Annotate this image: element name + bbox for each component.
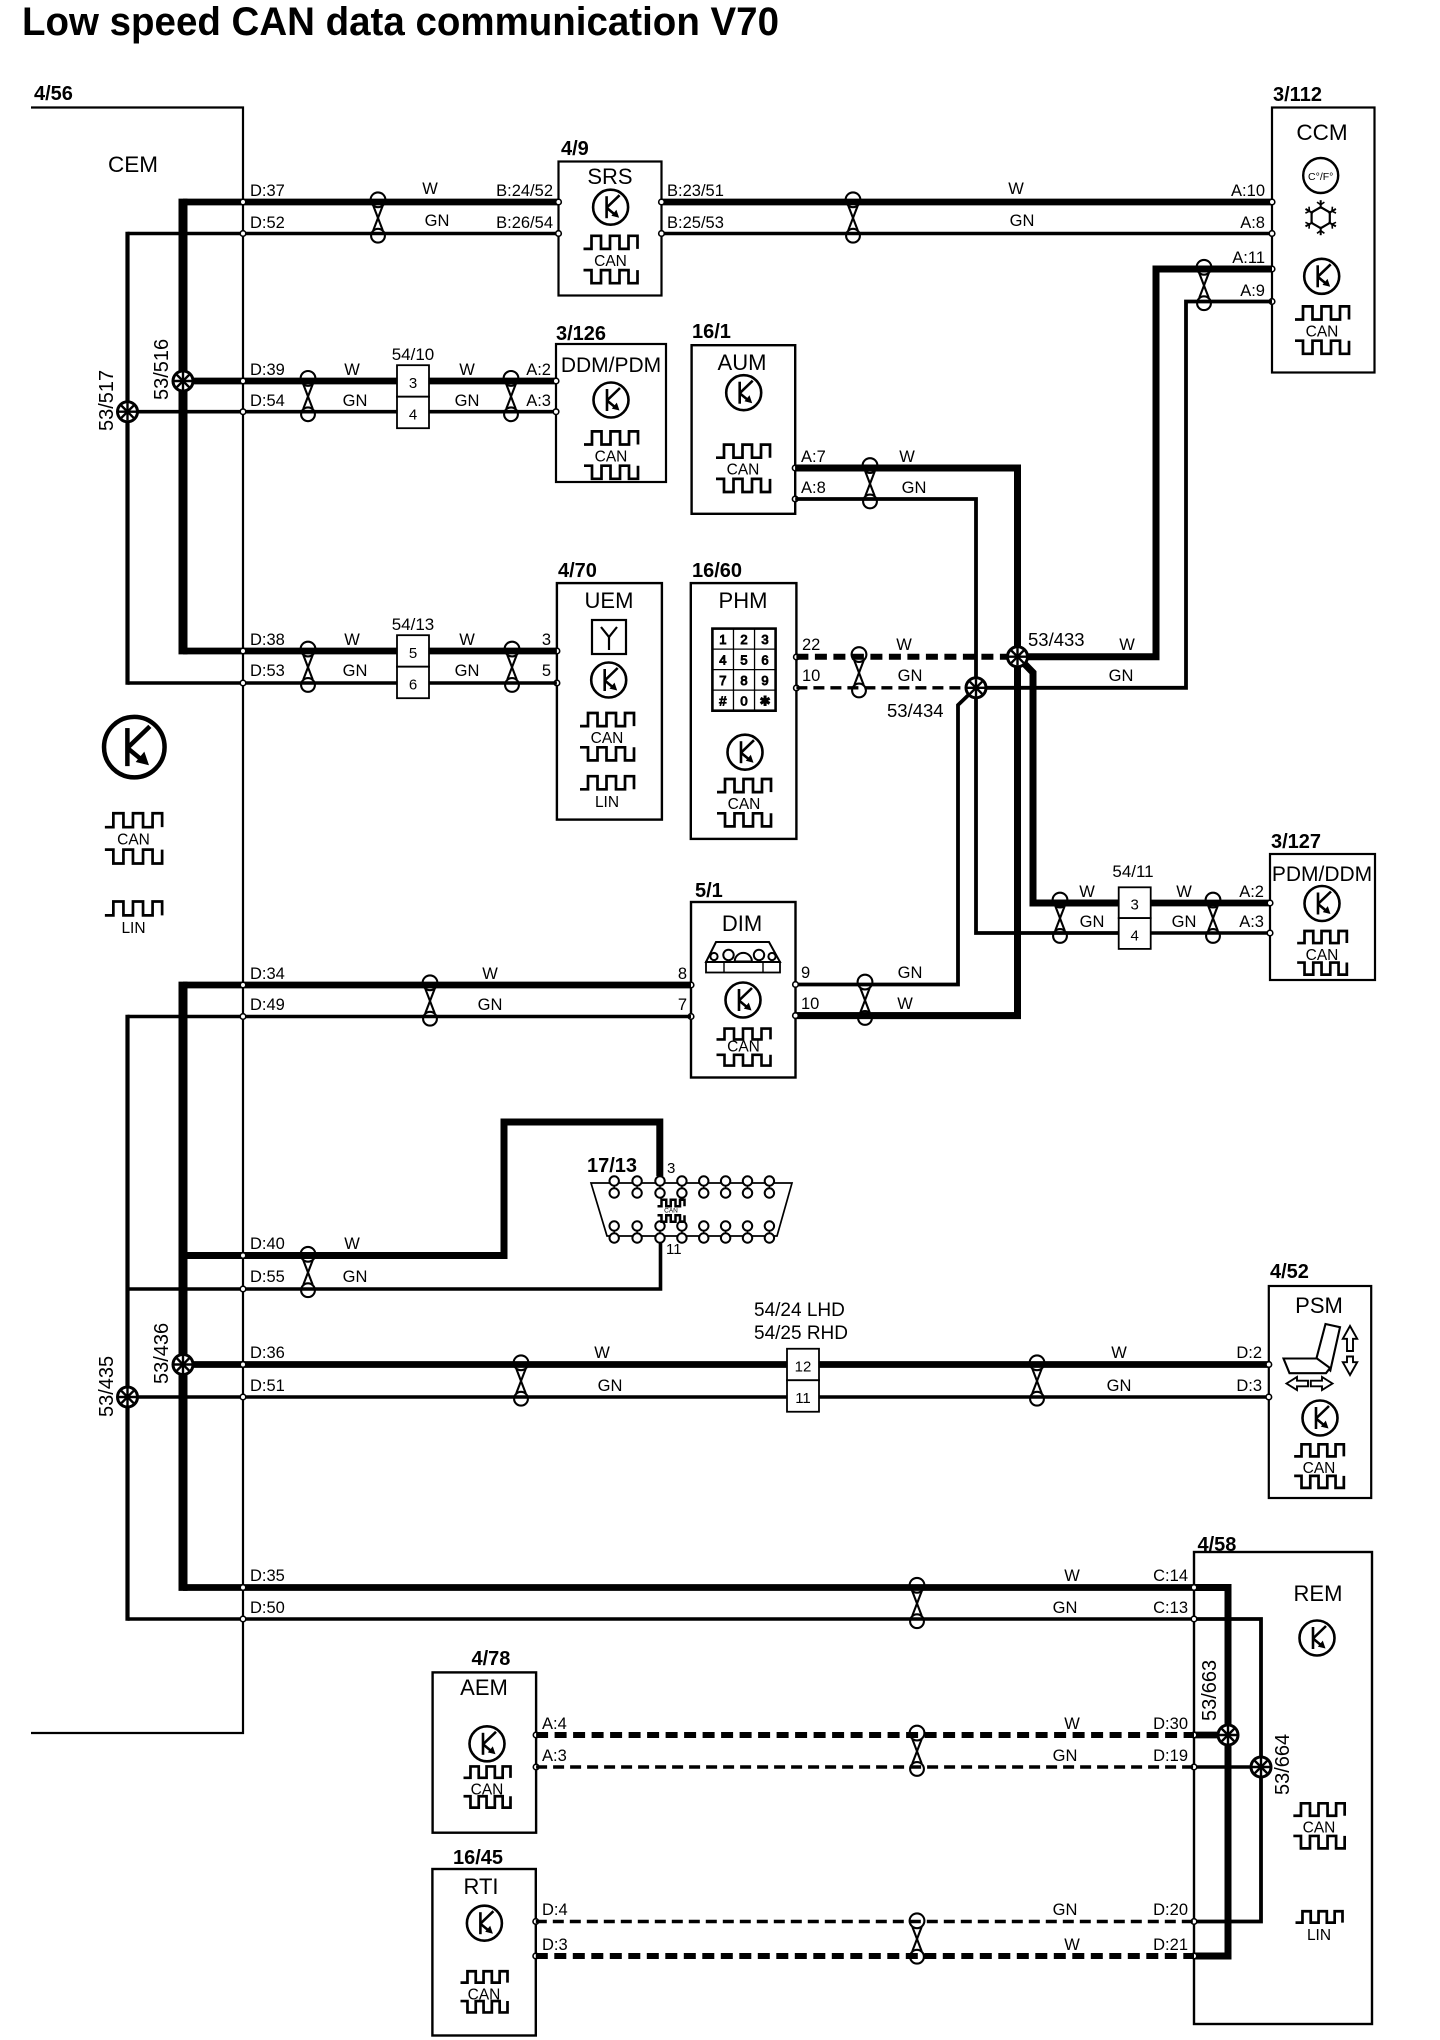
pin CCM A:9 <box>1269 299 1275 305</box>
svg-text:W: W <box>422 180 438 198</box>
svg-text:D:20: D:20 <box>1153 1901 1188 1919</box>
svg-text:LIN: LIN <box>121 920 145 937</box>
svg-text:4: 4 <box>409 407 417 424</box>
wire W CEM D:37 to SRS B:24/52 <box>183 199 558 206</box>
pin CEM D:52 <box>240 231 246 237</box>
twisted pair <box>863 458 878 508</box>
pin REM D:21 <box>1191 1953 1197 1959</box>
svg-text:GN: GN <box>898 667 923 685</box>
svg-text:GN: GN <box>343 662 368 680</box>
wire GN bus CEM lower (D:49-D:50) <box>125 1015 129 1621</box>
svg-text:A:10: A:10 <box>1231 182 1265 200</box>
svg-text:LIN: LIN <box>595 794 619 811</box>
wire GN splice 53/434 to CCM A:9 <box>976 302 1272 688</box>
twisted pair <box>858 975 873 1025</box>
pin CEM D:50 <box>240 1616 246 1622</box>
splice 53/663 <box>1218 1725 1238 1745</box>
svg-text:PDM/DDM: PDM/DDM <box>1272 863 1372 886</box>
module PDM/DDM 3/127 <box>1267 831 1375 980</box>
svg-text:D:51: D:51 <box>250 1377 285 1395</box>
svg-text:6: 6 <box>409 677 417 694</box>
pin CEM D:38 <box>240 648 246 654</box>
svg-text:GN: GN <box>1010 212 1035 230</box>
wire W bus CEM lower (D:34-D:35) <box>179 982 188 1591</box>
svg-text:A:3: A:3 <box>542 1747 567 1765</box>
svg-text:GN: GN <box>455 392 480 410</box>
K-line symbol PHM <box>728 735 763 770</box>
svg-text:GN: GN <box>455 662 480 680</box>
pin CEM D:54 <box>240 409 246 415</box>
svg-text:W: W <box>344 1235 360 1253</box>
module REM 4/58 <box>1194 1534 1372 2024</box>
svg-text:D:37: D:37 <box>250 182 285 200</box>
twisted pair <box>504 371 519 421</box>
svg-text:22: 22 <box>802 636 820 654</box>
splice 53/436 <box>173 1355 193 1375</box>
svg-text:8: 8 <box>740 673 747 688</box>
svg-text:6: 6 <box>761 652 768 667</box>
svg-text:A:2: A:2 <box>1239 883 1264 901</box>
wire W CEM D:39 to DDM/PDM A:2 <box>183 378 556 385</box>
svg-text:11: 11 <box>795 1390 811 1407</box>
pin CEM D:34 <box>240 982 246 988</box>
module SRS 4/9 <box>556 138 665 296</box>
pin CEM D:39 <box>240 378 246 384</box>
twisted pair <box>910 1913 925 1963</box>
svg-text:8: 8 <box>678 965 687 983</box>
splice 53/516 <box>173 371 193 391</box>
svg-text:CAN: CAN <box>1303 1820 1336 1837</box>
pin REM D:30 <box>1191 1732 1197 1738</box>
pin DIM 8 <box>688 982 694 988</box>
svg-text:7: 7 <box>678 996 687 1014</box>
svg-text:CAN: CAN <box>1306 324 1339 341</box>
svg-text:D:38: D:38 <box>250 631 285 649</box>
svg-text:D:54: D:54 <box>250 392 285 410</box>
wire W 54/11 pin3 to PDM/DDM A:2 <box>1151 900 1270 907</box>
wire GN to 54/11 pin4 to PDM/DDM A:3 <box>1151 931 1270 935</box>
svg-text:AUM: AUM <box>718 350 767 375</box>
svg-text:D:19: D:19 <box>1153 1747 1188 1765</box>
svg-text:A:3: A:3 <box>526 392 551 410</box>
twisted pair <box>1030 1355 1045 1405</box>
wire GN dashed RTI D:4 to REM D:20 <box>536 1920 1194 1923</box>
svg-text:D:3: D:3 <box>1236 1377 1262 1395</box>
wire GN CEM D:53 to UEM 5 <box>128 681 557 685</box>
module CEM 4/56 <box>31 83 243 1733</box>
pin DIM 10 <box>793 1013 799 1019</box>
svg-text:16/1: 16/1 <box>692 321 731 343</box>
wire W CEM D:35 to REM C:14 <box>183 1584 1194 1591</box>
pin CEM D:36 <box>240 1362 246 1368</box>
svg-text:REM: REM <box>1294 1581 1343 1606</box>
LIN symbol UEM <box>580 776 634 811</box>
pin REM C:13 <box>1191 1616 1197 1622</box>
CAN symbol DIM <box>717 1029 771 1066</box>
CAN symbol PHM <box>717 779 771 826</box>
svg-text:W: W <box>1064 1936 1080 1954</box>
svg-text:W: W <box>344 631 360 649</box>
svg-text:53/434: 53/434 <box>887 700 944 721</box>
svg-text:CEM: CEM <box>108 152 158 177</box>
module AEM 4/78 <box>433 1648 539 1833</box>
svg-text:CAN: CAN <box>728 796 761 813</box>
wire W CEM D:40 to connector 17/13 pin 3 <box>183 1122 660 1256</box>
svg-text:10: 10 <box>801 995 819 1013</box>
K-line symbol DIM <box>726 983 761 1018</box>
wire GN CEM D:50 to REM C:13 <box>128 1617 1195 1621</box>
svg-text:RTI: RTI <box>463 1874 498 1899</box>
svg-text:11: 11 <box>666 1241 682 1258</box>
svg-text:AEM: AEM <box>460 1675 508 1700</box>
svg-text:W: W <box>344 361 360 379</box>
svg-text:3: 3 <box>761 632 768 647</box>
svg-text:A:4: A:4 <box>542 1715 567 1733</box>
svg-text:4/56: 4/56 <box>34 83 73 105</box>
K-line symbol CCM <box>1304 259 1339 294</box>
CAN symbol PSM <box>1294 1444 1344 1488</box>
twisted pair <box>301 1247 316 1297</box>
twisted pair <box>514 1355 529 1405</box>
svg-text:D:21: D:21 <box>1153 1936 1188 1954</box>
twisted pair <box>1053 893 1068 943</box>
svg-text:B:24/52: B:24/52 <box>496 182 553 200</box>
pin DIM 9 <box>793 982 799 988</box>
svg-text:53/517: 53/517 <box>96 370 118 431</box>
twisted pair <box>371 192 386 242</box>
antenna icon <box>592 620 626 654</box>
svg-text:A:8: A:8 <box>801 479 826 497</box>
svg-text:A:9: A:9 <box>1240 282 1265 300</box>
twisted pair <box>846 192 861 242</box>
svg-text:D:53: D:53 <box>250 662 285 680</box>
svg-text:D:36: D:36 <box>250 1344 285 1362</box>
svg-text:9: 9 <box>761 673 768 688</box>
svg-text:GN: GN <box>898 964 923 982</box>
svg-text:W: W <box>899 448 915 466</box>
svg-text:5/1: 5/1 <box>695 880 723 902</box>
svg-text:GN: GN <box>1172 913 1197 931</box>
svg-text:✱: ✱ <box>760 693 771 708</box>
snowflake AC icon <box>1305 200 1336 235</box>
svg-text:UEM: UEM <box>585 588 634 613</box>
svg-text:CAN: CAN <box>595 449 628 466</box>
wire W dashed AEM A:4 to REM D:30 <box>536 1732 1194 1738</box>
splice 53/517 <box>118 402 138 422</box>
wire GN bus CEM upper (D:52-D:53) <box>125 232 129 685</box>
module CCM 3/112 <box>1272 84 1375 373</box>
svg-text:53/663: 53/663 <box>1199 1660 1221 1721</box>
connector 54/24 LHD / 54/25 RHD <box>754 1300 848 1412</box>
svg-text:16/60: 16/60 <box>692 560 742 582</box>
svg-text:GN: GN <box>478 996 503 1014</box>
svg-text:D:34: D:34 <box>250 965 285 983</box>
svg-text:53/436: 53/436 <box>151 1323 173 1384</box>
svg-text:2: 2 <box>740 632 747 647</box>
svg-text:7: 7 <box>719 673 726 688</box>
wire GN AUM A:8 down to splice 53/434 <box>795 499 1118 933</box>
svg-text:A:3: A:3 <box>1239 913 1264 931</box>
connector 54/13 <box>392 615 435 698</box>
wire W bus CEM upper (D:37-D:38) <box>179 199 188 655</box>
K-line symbol UEM <box>591 663 626 698</box>
module DIM 5/1 <box>691 880 796 1078</box>
wire GN CEM D:55 to connector 17/13 pin 11 <box>128 1242 661 1289</box>
wire GN dashed PHM 10 to splice 53/434 <box>796 686 976 689</box>
svg-text:W: W <box>1079 883 1095 901</box>
svg-text:GN: GN <box>343 1268 368 1286</box>
wire GN CEM D:52 to SRS B:26/54 <box>128 232 559 236</box>
svg-text:CAN: CAN <box>591 730 624 747</box>
svg-text:3: 3 <box>1131 897 1139 914</box>
wire W dashed PHM 22 to splice 53/433 <box>796 654 1017 660</box>
svg-text:CAN: CAN <box>594 253 627 270</box>
svg-text:W: W <box>594 1344 610 1362</box>
svg-text:4/70: 4/70 <box>558 560 597 582</box>
wire W REM D:30 to splice 53/663 <box>1194 1732 1228 1739</box>
LIN symbol CEM <box>105 901 162 936</box>
svg-text:B:25/53: B:25/53 <box>667 214 724 232</box>
module PHM 16/60 <box>691 560 797 839</box>
power seat icon <box>1284 1324 1358 1390</box>
CAN symbol CEM <box>105 813 162 863</box>
svg-text:D:52: D:52 <box>250 214 285 232</box>
pin CEM D:51 <box>240 1394 246 1400</box>
svg-text:CAN: CAN <box>727 1039 760 1056</box>
wire GN CEM D:54 to DDM/PDM A:3 <box>128 410 557 414</box>
wire GN SRS B:25/53 to CCM A:8 <box>662 232 1272 236</box>
connector 54/11 <box>1112 862 1153 949</box>
svg-text:D:55: D:55 <box>250 1268 285 1286</box>
twisted pair <box>505 642 520 692</box>
svg-text:4/78: 4/78 <box>472 1648 511 1670</box>
svg-text:W: W <box>482 965 498 983</box>
svg-text:CAN: CAN <box>727 462 760 479</box>
wire GN splice 53/434 jog to DIM 9 <box>796 688 977 985</box>
svg-text:4/52: 4/52 <box>1270 1261 1309 1283</box>
svg-text:D:50: D:50 <box>250 1599 285 1617</box>
svg-text:W: W <box>1119 636 1135 654</box>
svg-text:9: 9 <box>801 964 810 982</box>
svg-text:GN: GN <box>1109 667 1134 685</box>
instrument cluster icon <box>706 942 780 973</box>
pin UEM 5 <box>554 680 560 686</box>
wire W REM C:14 internal to D:21 <box>1194 1588 1228 1957</box>
svg-text:1: 1 <box>719 632 726 647</box>
svg-text:D:3: D:3 <box>542 1936 568 1954</box>
svg-text:A:7: A:7 <box>801 448 826 466</box>
wire GN REM C:13 internal to D:20 <box>1194 1619 1261 1922</box>
svg-text:54/10: 54/10 <box>392 345 435 364</box>
wire W dashed RTI D:3 to REM D:21 <box>536 1953 1194 1959</box>
wire W CEM D:36 to PSM D:2 <box>183 1361 1269 1368</box>
wire W splice 53/433 jog to 54/11 pin 3 <box>1018 657 1119 903</box>
svg-text:3: 3 <box>409 375 417 392</box>
wire W CEM D:38 to UEM 3 <box>183 648 557 655</box>
pin CEM D:49 <box>240 1014 246 1020</box>
svg-text:W: W <box>459 631 475 649</box>
svg-text:W: W <box>1176 883 1192 901</box>
splice 53/433 <box>1008 647 1028 667</box>
svg-text:4/9: 4/9 <box>561 138 589 160</box>
svg-text:54/24 LHD: 54/24 LHD <box>754 1300 845 1321</box>
connector 54/10 <box>392 345 435 428</box>
svg-text:5: 5 <box>409 645 417 662</box>
pin CCM A:11 <box>1269 266 1275 272</box>
svg-text:W: W <box>896 636 912 654</box>
svg-text:3: 3 <box>542 631 551 649</box>
wire GN dashed AEM A:3 to REM D:19 <box>536 1765 1194 1768</box>
wire GN REM D:19 to splice 53/664 <box>1194 1765 1261 1769</box>
svg-text:A:8: A:8 <box>1240 214 1265 232</box>
svg-text:5: 5 <box>740 652 747 667</box>
pin CEM D:55 <box>240 1286 246 1292</box>
svg-text:C:14: C:14 <box>1153 1567 1188 1585</box>
svg-text:D:30: D:30 <box>1153 1715 1188 1733</box>
module AUM 16/1 <box>692 321 798 514</box>
svg-text:D:2: D:2 <box>1236 1344 1262 1362</box>
svg-text:GN: GN <box>343 392 368 410</box>
K-line symbol PSM <box>1303 1401 1338 1436</box>
CAN symbol UEM <box>580 713 634 760</box>
svg-text:GN: GN <box>1053 1901 1078 1919</box>
pin CCM A:10 <box>1269 199 1275 205</box>
twisted pair <box>423 975 438 1025</box>
splice 53/435 <box>118 1387 138 1407</box>
wire GN CEM D:51 to PSM D:3 <box>128 1395 1269 1399</box>
svg-text:CAN: CAN <box>664 1208 678 1215</box>
svg-text:A:11: A:11 <box>1232 249 1265 267</box>
svg-text:SRS: SRS <box>587 164 632 189</box>
keypad icon <box>712 629 775 711</box>
svg-text:W: W <box>1008 180 1024 198</box>
svg-text:0: 0 <box>740 693 747 708</box>
wire W AUM A:7 down to splice 53/433 and DIM 10 <box>795 468 1017 1016</box>
pin UEM 3 <box>554 648 560 654</box>
svg-text:54/25 RHD: 54/25 RHD <box>754 1323 848 1344</box>
pin CEM D:35 <box>240 1585 246 1591</box>
svg-text:3: 3 <box>667 1160 675 1177</box>
twisted pair <box>910 1726 925 1776</box>
module RTI 16/45 <box>432 1847 538 2036</box>
module UEM 4/70 <box>557 560 662 820</box>
svg-text:DIM: DIM <box>722 911 762 936</box>
CAN symbol 17/13 <box>658 1200 685 1222</box>
svg-text:C°/F°: C°/F° <box>1308 171 1333 183</box>
pin REM D:20 <box>1191 1919 1197 1925</box>
pin PHM 10 <box>794 685 800 691</box>
wire W SRS B:23/51 to CCM A:10 <box>662 199 1272 206</box>
svg-text:#: # <box>719 693 727 708</box>
module PSM 4/52 <box>1266 1261 1371 1498</box>
svg-text:D:49: D:49 <box>250 996 285 1014</box>
svg-text:12: 12 <box>795 1359 812 1376</box>
svg-text:53/435: 53/435 <box>96 1356 118 1417</box>
svg-text:16/45: 16/45 <box>453 1847 503 1869</box>
wire W splice 53/433 to CCM A:11 <box>1018 269 1273 657</box>
wire W CEM D:34 to DIM 8 <box>183 982 691 989</box>
svg-text:DDM/PDM: DDM/PDM <box>561 354 661 377</box>
svg-text:3/127: 3/127 <box>1271 831 1321 853</box>
svg-text:3/112: 3/112 <box>1273 84 1322 106</box>
pin CEM D:37 <box>240 199 246 205</box>
svg-text:D:39: D:39 <box>250 361 285 379</box>
twisted pair <box>301 371 316 421</box>
twisted pair <box>852 647 867 697</box>
svg-text:3/126: 3/126 <box>556 323 606 345</box>
svg-text:CAN: CAN <box>117 831 150 848</box>
twisted pair <box>1206 893 1221 943</box>
svg-text:54/11: 54/11 <box>1112 862 1153 881</box>
svg-text:10: 10 <box>802 667 820 685</box>
K-line symbol CEM <box>104 717 165 778</box>
svg-text:GN: GN <box>425 212 450 230</box>
svg-text:A:2: A:2 <box>526 361 551 379</box>
svg-text:4: 4 <box>719 652 726 667</box>
svg-text:W: W <box>1111 1344 1127 1362</box>
pin PHM 22 <box>794 654 800 660</box>
svg-text:GN: GN <box>598 1377 623 1395</box>
twisted pair <box>301 642 316 692</box>
svg-text:W: W <box>459 361 475 379</box>
svg-text:CCM: CCM <box>1296 120 1347 145</box>
K-line symbol REM <box>1300 1621 1335 1656</box>
svg-text:D:40: D:40 <box>250 1235 285 1253</box>
pin CEM D:53 <box>240 680 246 686</box>
svg-text:5: 5 <box>542 662 551 680</box>
pin DIM 7 <box>688 1014 694 1020</box>
splice 53/434 <box>966 678 986 698</box>
svg-text:B:23/51: B:23/51 <box>667 182 724 200</box>
svg-text:GN: GN <box>902 479 927 497</box>
svg-text:B:26/54: B:26/54 <box>496 214 553 232</box>
CAN symbol CCM <box>1295 306 1349 353</box>
svg-text:D:35: D:35 <box>250 1567 285 1585</box>
module DDM/PDM 3/126 <box>553 323 666 482</box>
svg-text:53/516: 53/516 <box>151 339 173 400</box>
svg-text:17/13: 17/13 <box>587 1155 637 1177</box>
splice 53/664 <box>1251 1757 1271 1777</box>
svg-text:PSM: PSM <box>1295 1293 1343 1318</box>
pin REM D:19 <box>1191 1764 1197 1770</box>
pin REM C:14 <box>1191 1585 1197 1591</box>
svg-text:D:4: D:4 <box>542 1901 568 1919</box>
svg-text:Low speed CAN data communicati: Low speed CAN data communication V70 <box>22 0 779 44</box>
twisted pair <box>910 1578 925 1628</box>
svg-text:4: 4 <box>1131 927 1139 944</box>
svg-text:GN: GN <box>1080 913 1105 931</box>
svg-text:W: W <box>1064 1715 1080 1733</box>
svg-text:LIN: LIN <box>1307 1927 1331 1944</box>
LIN symbol REM <box>1296 1911 1343 1944</box>
pin CEM D:40 <box>240 1253 246 1259</box>
svg-text:C:13: C:13 <box>1153 1599 1188 1617</box>
CAN symbol REM <box>1293 1803 1344 1848</box>
svg-text:53/433: 53/433 <box>1028 629 1085 650</box>
svg-text:GN: GN <box>1053 1747 1078 1765</box>
connector 17/13 (OBD) <box>587 1155 792 1243</box>
svg-text:53/664: 53/664 <box>1272 1734 1294 1795</box>
svg-text:W: W <box>897 995 913 1013</box>
svg-text:GN: GN <box>1107 1377 1132 1395</box>
twisted pair <box>1197 260 1212 310</box>
svg-text:54/13: 54/13 <box>392 615 435 634</box>
svg-text:W: W <box>1064 1567 1080 1585</box>
svg-text:PHM: PHM <box>719 588 768 613</box>
svg-text:GN: GN <box>1053 1599 1078 1617</box>
pin CCM A:8 <box>1269 231 1275 237</box>
thermometer C/F icon <box>1303 158 1338 193</box>
